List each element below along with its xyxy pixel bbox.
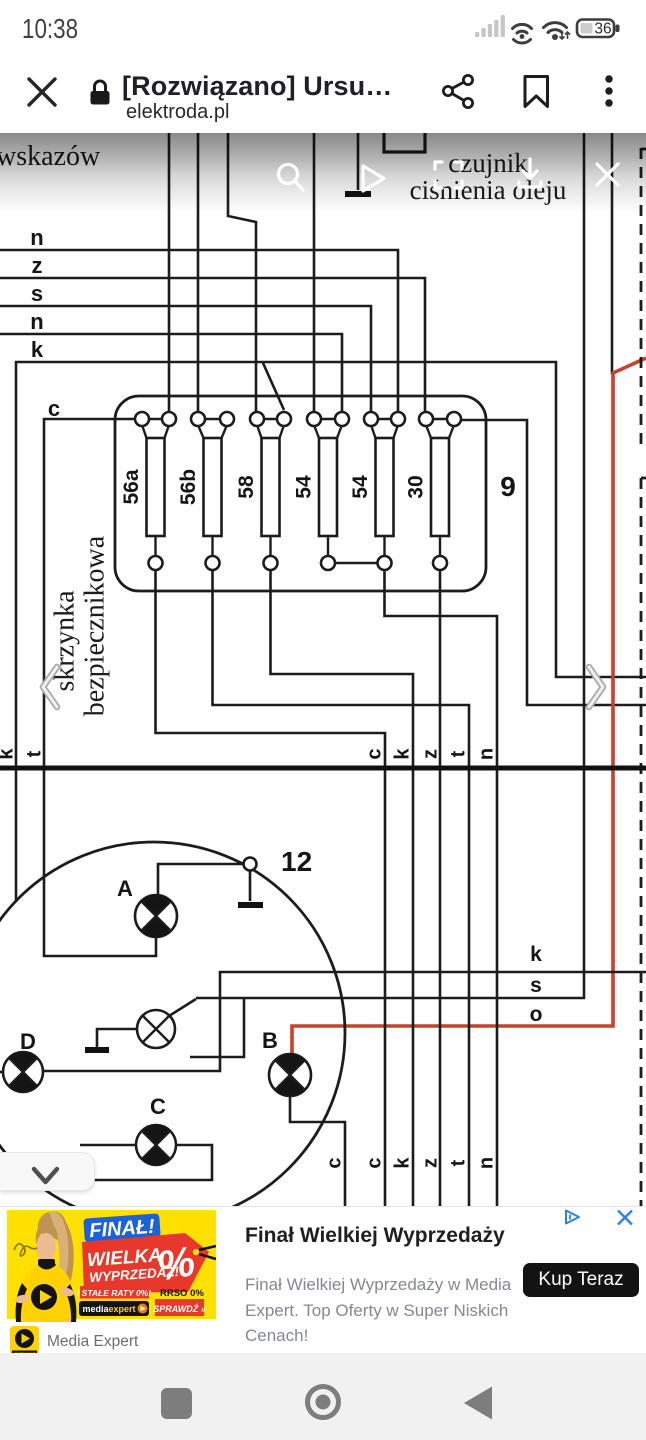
svg-text:t: t	[23, 750, 45, 757]
svg-text:z: z	[419, 749, 441, 759]
svg-text:54: 54	[293, 475, 316, 499]
svg-text:s: s	[530, 974, 542, 997]
svg-text:RRSO 0%: RRSO 0%	[160, 1288, 204, 1299]
svg-text:c: c	[323, 1157, 345, 1168]
svg-text:t: t	[447, 750, 469, 757]
svg-text:n: n	[30, 225, 43, 250]
svg-text:D: D	[20, 1029, 36, 1054]
svg-text:k: k	[31, 337, 44, 362]
svg-text:SPRAWDŹ »: SPRAWDŹ »	[153, 1304, 206, 1314]
svg-text:mediaexpert: mediaexpert	[83, 1304, 136, 1314]
svg-text:56b: 56b	[177, 469, 200, 505]
svg-text:c: c	[363, 1157, 385, 1168]
svg-text:56a: 56a	[120, 469, 143, 504]
svg-text:bezpiecznikowa: bezpiecznikowa	[79, 535, 110, 716]
svg-text:C: C	[150, 1094, 166, 1119]
svg-text:k: k	[391, 748, 413, 760]
svg-text:12: 12	[281, 846, 312, 877]
svg-text:9: 9	[500, 471, 516, 502]
svg-text:Media Expert: Media Expert	[47, 1333, 139, 1350]
svg-text:k: k	[391, 1157, 413, 1169]
svg-text:k: k	[0, 748, 17, 760]
svg-text:A: A	[117, 876, 133, 901]
svg-text:30: 30	[405, 475, 428, 498]
svg-text:o: o	[530, 1003, 543, 1026]
svg-text:t: t	[447, 1159, 469, 1166]
svg-text:z: z	[32, 253, 43, 278]
svg-text:n: n	[475, 748, 497, 760]
svg-text:n: n	[30, 309, 43, 334]
svg-text:i STAŁE RATY 0%!: i STAŁE RATY 0%!	[77, 1288, 151, 1298]
svg-text:n: n	[475, 1157, 497, 1169]
svg-text:58: 58	[235, 475, 258, 499]
svg-text:z: z	[419, 1158, 441, 1168]
svg-text:k: k	[530, 943, 542, 966]
svg-text:B: B	[262, 1028, 278, 1053]
svg-text:c: c	[363, 748, 385, 759]
svg-text:c: c	[48, 396, 60, 421]
svg-text:s: s	[31, 281, 43, 306]
svg-text:54: 54	[349, 475, 372, 499]
